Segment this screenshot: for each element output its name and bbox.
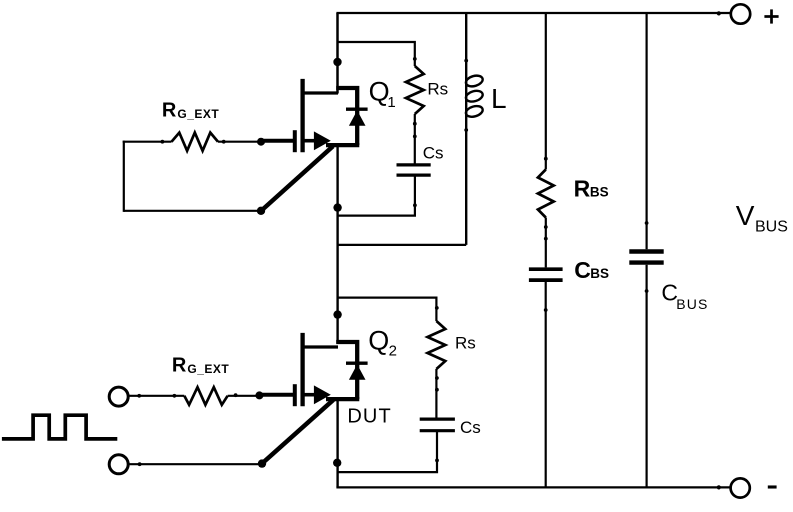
- wire bottom negative rail: [336, 486, 730, 488]
- transistor Q2 low-side MOSFET DUT with body diode: [261, 333, 368, 406]
- wire switch node to inductor bottom: [338, 244, 467, 246]
- node dot between Rs and Cs upper Q1: [413, 122, 417, 126]
- resistor RG_EXT Q1 gate: [172, 133, 219, 151]
- svg-text:1: 1: [387, 94, 395, 111]
- wire top positive rail: [336, 12, 730, 14]
- transistor Q1 high-side MOSFET with body diode: [261, 79, 368, 152]
- svg-text:Rs: Rs: [455, 333, 476, 352]
- svg-text:Cs: Cs: [460, 418, 481, 437]
- node dot before negative terminal: [717, 485, 721, 489]
- wire Rs to Cs Q1: [414, 114, 416, 164]
- wire switch node column: [336, 145, 338, 343]
- wire RBS to CBS: [545, 218, 547, 268]
- svg-text:Rs: Rs: [427, 79, 448, 98]
- wire Q1 gate loop left vertical: [123, 141, 125, 212]
- wire Q1 gate loop bottom segment: [124, 210, 261, 212]
- label CBS: [574, 257, 609, 283]
- wire RBS branch upper: [545, 13, 547, 170]
- svg-text:R: R: [172, 354, 187, 376]
- terminal gate drive input: [109, 387, 128, 406]
- wire Q2 kelvin source diagonal: [263, 400, 333, 463]
- wire Q1 drain from top rail: [336, 13, 339, 94]
- resistor Rs Q2 snubber: [428, 321, 446, 369]
- wire gate input segments: [129, 395, 259, 397]
- node dot below CBUS: [645, 289, 649, 293]
- node dot below CBS: [544, 308, 548, 312]
- node dot after return terminal: [138, 462, 142, 466]
- junction dot Q2 source node: [333, 459, 341, 467]
- pulse waveform symbol: [2, 415, 117, 439]
- node dot snubber branch top Q1: [413, 57, 417, 61]
- node dot inductor branch bottom: [464, 128, 468, 132]
- label RBS: [574, 175, 609, 201]
- label Q2: [368, 326, 397, 360]
- node dot before positive terminal: [717, 11, 721, 15]
- svg-text:R: R: [162, 100, 177, 122]
- wire Q2 source column: [336, 399, 338, 487]
- resistor RBS: [538, 170, 554, 218]
- node dot below Cs Q2: [435, 459, 439, 463]
- junction dot Q2 gate node: [255, 391, 263, 399]
- node dot between Rs and Cs lower Q1: [413, 135, 417, 139]
- wire CBUS to bottom rail: [645, 265, 647, 488]
- node dot right resistor terminal Q2: [234, 393, 238, 397]
- node dot left resistor terminal Q1: [161, 140, 165, 144]
- svg-text:BUS: BUS: [755, 219, 788, 236]
- svg-text:DUT: DUT: [347, 406, 391, 428]
- node dot between Rs and Cs lower Q2: [435, 388, 439, 392]
- wire CBS to bottom rail: [545, 282, 547, 487]
- minus sign label: [768, 485, 777, 488]
- node dot snubber branch top Q2: [435, 306, 439, 310]
- svg-text:G_EXT: G_EXT: [187, 362, 229, 376]
- junction dot on Q1 drain: [333, 58, 341, 66]
- node dot above CBUS: [645, 221, 649, 225]
- svg-text:V: V: [736, 200, 755, 231]
- wire Q1 gate loop top segment: [123, 141, 261, 143]
- wire Q1 snubber top branch: [338, 42, 415, 66]
- junction dot Q1 gate node: [257, 138, 265, 146]
- terminal positive bus: [731, 4, 750, 23]
- wire Q1 kelvin source diagonal: [262, 146, 333, 210]
- label RG_EXT Q1: [162, 100, 220, 122]
- label CBUS: [661, 279, 708, 312]
- wire CBUS branch upper: [645, 13, 647, 249]
- svg-text:Q: Q: [368, 326, 389, 356]
- wire Cs bottom to source rail Q2: [337, 431, 437, 472]
- node dot right resistor terminal Q1: [222, 140, 226, 144]
- node dot below Cs Q1: [413, 203, 417, 207]
- wire Cs bottom to switch node rail Q1: [338, 176, 415, 216]
- svg-text:R: R: [574, 175, 591, 201]
- svg-text:BS: BS: [590, 184, 609, 199]
- node dot between RBS and CBS upper: [544, 225, 548, 229]
- junction dot below Q1 source: [333, 203, 341, 211]
- label VBUS: [736, 200, 788, 235]
- resistor RG_EXT Q2 gate: [184, 387, 227, 405]
- wire Rs to Cs Q2: [435, 369, 437, 418]
- svg-text:BUS: BUS: [676, 296, 708, 312]
- node dot between RBS and CBS lower: [544, 237, 548, 241]
- junction dot Q2 drain node: [333, 310, 341, 318]
- capacitor CBS: [529, 269, 563, 280]
- wire Q2 snubber top branch: [338, 298, 437, 321]
- svg-text:C: C: [574, 257, 591, 283]
- node dot left resistor terminal Q2: [173, 394, 177, 398]
- svg-text:2: 2: [389, 343, 397, 360]
- junction dot Q1 kelvin source node: [257, 207, 265, 215]
- label RG_EXT Q2: [172, 354, 230, 376]
- svg-text:Cs: Cs: [423, 144, 444, 163]
- junction dot Q2 kelvin source node: [258, 459, 266, 467]
- inductor L coils: [465, 74, 484, 119]
- label Q1: [369, 77, 396, 111]
- wire inductor branch vertical: [465, 13, 467, 245]
- capacitor CBUS: [629, 252, 663, 263]
- capacitor Cs Q1 snubber: [397, 165, 431, 175]
- terminal negative bus: [731, 478, 750, 497]
- node dot RBS branch top: [544, 157, 548, 161]
- plus sign label: [764, 9, 778, 23]
- resistor Rs Q1 snubber: [406, 66, 424, 114]
- svg-text:G_EXT: G_EXT: [177, 107, 219, 121]
- wire source return: [129, 463, 262, 465]
- capacitor Cs Q2 snubber: [420, 419, 455, 431]
- node dot after input terminal: [137, 394, 141, 398]
- node dot between Rs and Cs upper Q2: [435, 376, 439, 380]
- svg-text:L: L: [491, 83, 507, 114]
- terminal source return input: [109, 455, 128, 474]
- svg-text:BS: BS: [590, 266, 609, 281]
- node dot inductor branch top: [464, 59, 468, 63]
